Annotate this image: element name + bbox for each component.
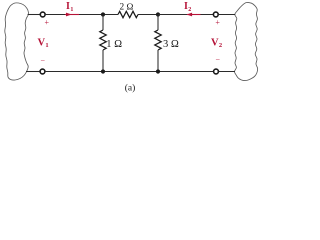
current arrow I2 (187, 13, 201, 17)
wire R3 down to bottom node (157, 50, 159, 72)
svg-text:−: − (215, 56, 220, 65)
resistor R2 1ohm vertical (100, 30, 106, 50)
resistor R1 2ohm horizontal (118, 11, 138, 17)
wire top-right terminal to blob (218, 14, 235, 16)
wire R2 down to bottom node (102, 50, 104, 72)
wire node B down to R3 (157, 15, 159, 31)
terminal top-left (40, 12, 45, 17)
svg-text:+: + (215, 18, 220, 27)
wire node A down to R2 (102, 15, 104, 31)
terminal bottom-right (214, 69, 219, 74)
svg-text:2 Ω: 2 Ω (119, 2, 133, 12)
node C bottom junction (101, 69, 105, 73)
current arrow I1 (65, 13, 79, 17)
wire node B to top-right terminal (158, 14, 213, 16)
svg-text:+: + (44, 18, 49, 27)
wire bottom-left from blob to terminal (26, 71, 40, 73)
wire top-left terminal to node A (45, 14, 118, 16)
node B top junction (156, 12, 160, 16)
wire bottom rail (45, 71, 214, 73)
terminal top-right (213, 12, 218, 17)
svg-text:(a): (a) (125, 83, 136, 94)
svg-text:3 Ω: 3 Ω (163, 39, 179, 50)
external network blob left (5, 3, 29, 80)
wire between R1 and node B (138, 14, 158, 16)
node D bottom junction (156, 69, 160, 73)
resistor R3 3ohm vertical (155, 30, 161, 50)
svg-text:1 Ω: 1 Ω (106, 39, 122, 50)
wire bottom-right terminal to blob (218, 71, 235, 73)
external network blob right (234, 2, 257, 80)
svg-text:−: − (41, 57, 46, 66)
node A top junction (101, 12, 105, 16)
terminal bottom-left (40, 69, 45, 74)
wire top-left from blob to terminal (28, 14, 41, 16)
